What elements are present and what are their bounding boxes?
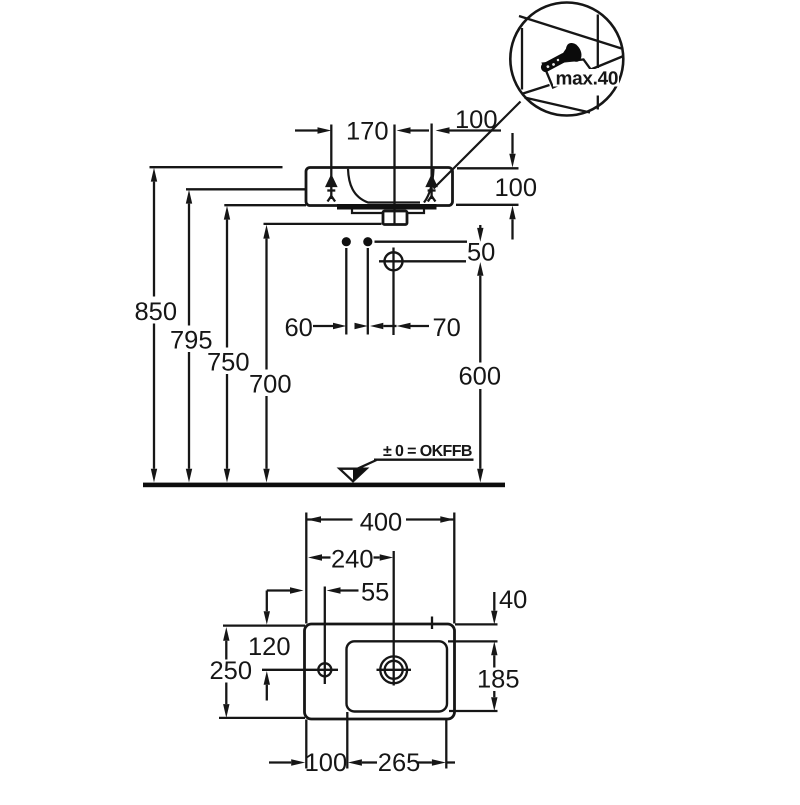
svg-text:250: 250 (210, 657, 253, 685)
detail screw (537, 40, 585, 78)
detail diagonal right (590, 56, 624, 70)
dimension 170 (295, 129, 501, 131)
plan top edge tick (431, 617, 433, 630)
detail wall vertical right lower (597, 96, 599, 110)
drain collar right (407, 210, 424, 214)
detail chord bottom (525, 98, 591, 113)
right mounting bolt symbol (427, 177, 436, 202)
node: right bolt extension line (430, 124, 432, 178)
detail diagonal bottom left (523, 85, 550, 94)
dimension 240 (322, 556, 380, 558)
wire: height ref line 750 level (224, 204, 306, 206)
dimension 50 (479, 225, 481, 469)
tap hole crosshair vertical (392, 248, 394, 336)
tap hole circle front (385, 252, 403, 270)
wire: inner bottom extension right (449, 710, 498, 712)
detail circle (510, 3, 623, 116)
detail leader line to bolt (434, 102, 521, 189)
svg-text:± 0 = OKFFB: ± 0 = OKFFB (383, 443, 472, 460)
wire: small hole centerline plan (324, 587, 326, 685)
svg-text:40: 40 (499, 586, 527, 614)
drain stub (383, 211, 407, 225)
dimension 120 leader (267, 591, 290, 701)
svg-text:265: 265 (378, 749, 421, 777)
wire: height ref line 700 level (264, 223, 382, 225)
dimension 185 (493, 655, 495, 697)
tap hole plan horizontal arm (377, 669, 412, 671)
wire: height ref line 850 level (150, 166, 283, 168)
node: drain centerline through stub (393, 211, 395, 224)
detail wall vertical right upper (597, 15, 599, 69)
basin plan inner outline (347, 641, 448, 711)
dimension 750 (226, 220, 228, 469)
FRONT VIEW GROUP (150, 124, 453, 225)
svg-text:70: 70 (433, 314, 461, 342)
svg-text:185: 185 (477, 666, 520, 694)
svg-text:max.40: max.40 (556, 69, 619, 90)
svg-text:60: 60 (285, 314, 313, 342)
wire: small hole horizontal centerline (262, 669, 338, 671)
wire: plan top edge extension left (223, 624, 305, 626)
wire: plan right extension top (453, 513, 455, 624)
svg-text:170: 170 (346, 118, 389, 146)
left mounting bolt symbol (327, 177, 336, 202)
node: drain centerline front (393, 125, 395, 225)
wire: plan right inner extension bottom (445, 720, 447, 769)
wire: tap centerline plan (393, 551, 395, 686)
dimension 60 70 row (313, 325, 429, 327)
svg-text:100: 100 (495, 174, 538, 202)
svg-text:120: 120 (248, 633, 291, 661)
detail bracket plate (543, 60, 592, 88)
drain collar left (352, 210, 383, 214)
dimension 400 (306, 518, 454, 520)
wire: inner left extension bottom (346, 712, 348, 769)
bolt hole dot left (342, 237, 351, 246)
floor line (143, 483, 505, 488)
detail wall diagonal top (519, 16, 622, 49)
bolt hole dot right (363, 237, 372, 246)
dimension 795 (188, 204, 190, 469)
dimension 100 265 bottom (269, 761, 455, 763)
dimension 40 (493, 592, 495, 611)
wire: plan bottom edge extension left (219, 717, 305, 719)
label max.40 (553, 69, 619, 87)
wire: inner top extension right (448, 640, 498, 642)
basin interior right wall curve (424, 169, 434, 203)
svg-text:100: 100 (305, 749, 348, 777)
level underline (374, 459, 474, 461)
wire: height ref line 795 level (186, 188, 306, 190)
svg-text:400: 400 (360, 509, 403, 537)
basin body front outline (306, 168, 453, 206)
tap hole plan outer circle (380, 656, 407, 683)
svg-text:700: 700 (249, 371, 292, 399)
wire: plan top edge extension right (455, 623, 498, 625)
basin plan outer outline (305, 624, 455, 719)
tap hole plan inner circle (385, 661, 403, 679)
sealing strip black bar (337, 204, 437, 210)
svg-text:600: 600 (459, 363, 502, 391)
tap hole crosshair horizontal (379, 260, 466, 262)
svg-text:55: 55 (361, 579, 389, 607)
dimension 250 (225, 641, 227, 704)
svg-text:850: 850 (135, 298, 178, 326)
node: left bolt extension line (330, 125, 332, 180)
svg-text:240: 240 (331, 546, 374, 574)
wire: dot right centerline (367, 248, 369, 335)
basin interior left wall curve (348, 169, 420, 203)
wire: plan left extension bottom (305, 720, 307, 769)
dimension 55 (341, 589, 359, 591)
dimension 850 (153, 182, 155, 469)
small hole plan circle (318, 663, 331, 676)
dimension 100 height right (456, 133, 519, 240)
dimension 700 (265, 239, 267, 469)
wire: dots row to 50 dim (375, 241, 468, 243)
svg-text:50: 50 (467, 239, 495, 267)
svg-text:750: 750 (207, 349, 250, 377)
level symbol triangle (340, 469, 367, 482)
wire: dot left centerline (345, 248, 347, 335)
detail wall vertical left (521, 28, 523, 90)
wire: plan left extension top (305, 513, 307, 624)
level leader diagonal (358, 460, 377, 469)
